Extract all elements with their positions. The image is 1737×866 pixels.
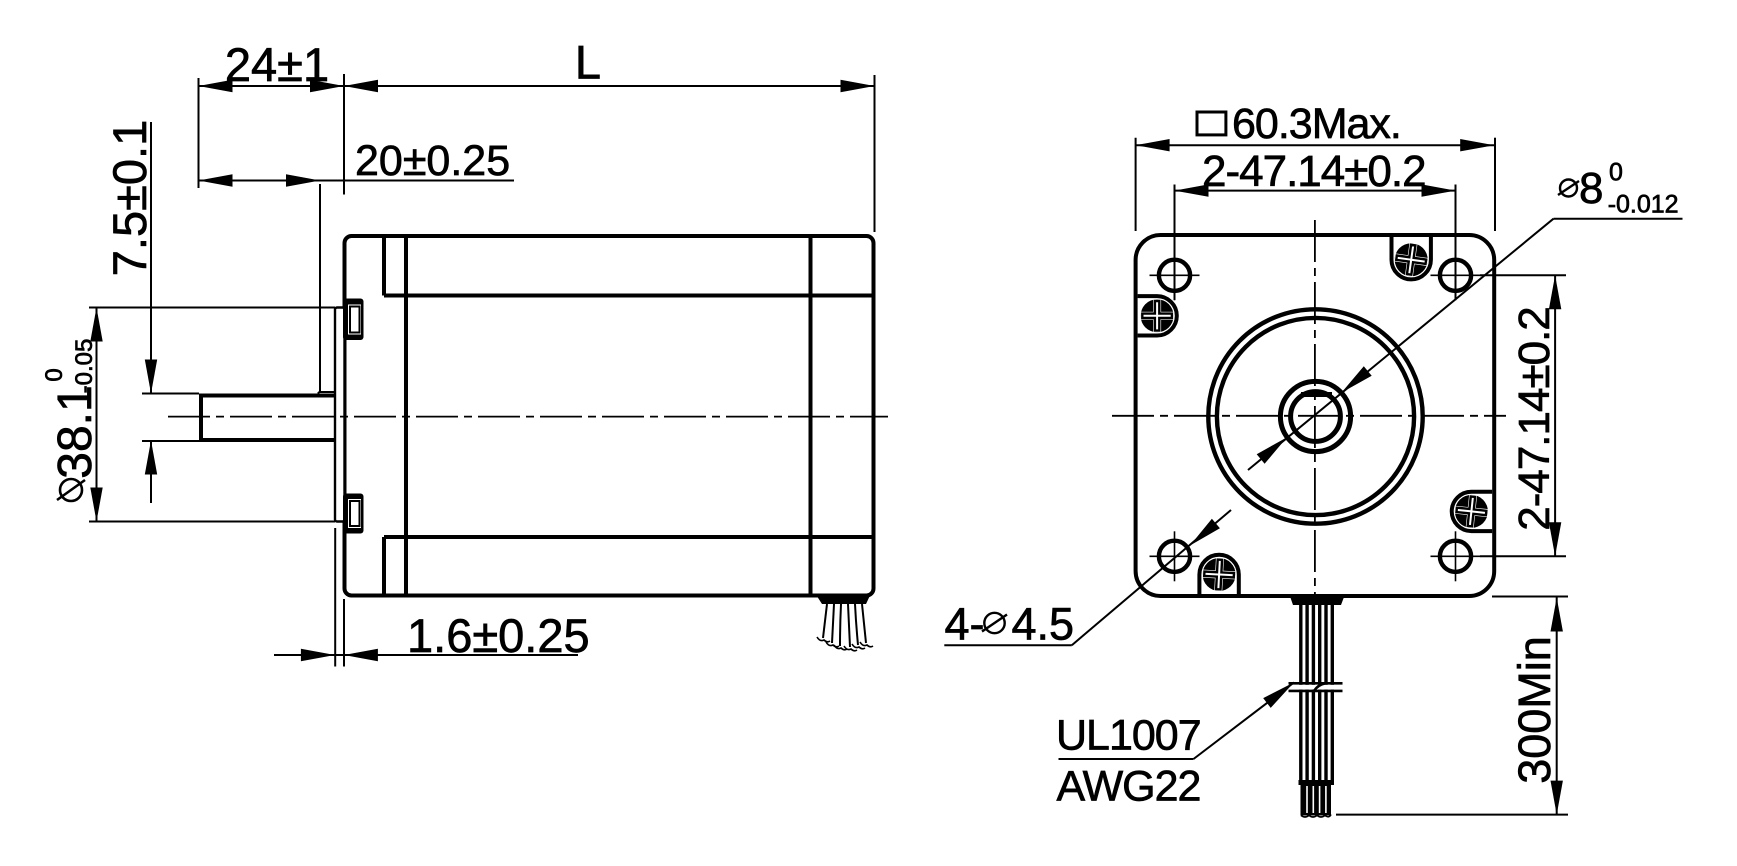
upper mounting tab [343,299,364,341]
svg-text:4.5: 4.5 [1012,599,1075,650]
front endcap inner line top [382,236,386,296]
extension lines 47.14 right [1480,275,1566,556]
extension lines 1.6 [335,528,344,667]
leader line 4-Ø4.5 [1072,510,1231,645]
dimension line 20±0.25 [199,180,515,182]
mounting hole bottom-right [1431,531,1481,581]
dimension line 24±1 [199,85,345,87]
label Ø38.1 with diameter symbol [41,339,102,501]
dimension line 7.5±0.1 [150,122,152,503]
extension lines 47.14 top [1175,185,1456,301]
cover screw top [1392,237,1431,279]
dimension line Ø38.1 [96,308,98,522]
cable break symbol [1288,683,1344,691]
svg-text:8: 8 [1579,164,1603,213]
svg-text:AWG22: AWG22 [1057,763,1201,811]
shaft circle [1291,392,1341,442]
svg-text:-0.012: -0.012 [1608,191,1679,219]
side view centerline [168,416,888,418]
svg-text:0: 0 [1609,158,1623,186]
cover screw bottom [1199,555,1238,594]
horizontal centerline (front view) [1112,415,1506,417]
body upper horizontal line [384,294,874,298]
label 4-Ø4.5 [944,599,1074,650]
rear endcap vertical line [809,236,813,596]
svg-text:20±0.25: 20±0.25 [355,137,510,185]
extension lines 60.3 [1136,138,1495,231]
arrowheads 7.5±0.1 [145,360,157,394]
svg-text:2-47.14±0.2: 2-47.14±0.2 [1510,307,1559,531]
shaft step near boss [319,392,337,396]
shaft boss circle [1280,381,1350,451]
arrowhead UL1007 leader [1263,682,1294,708]
arrowheads 20±0.25 [199,174,233,186]
arrowheads 24±1 [199,80,233,92]
mounting hole top-left [1150,250,1200,300]
lower mounting tab [343,494,364,534]
arrowheads 300Min [1551,598,1563,632]
dimension line 60.3 [1136,144,1495,146]
stripped wire ends [1299,780,1335,817]
label Ø8 0 -0.012 [1554,158,1683,218]
pilot circle inner [1217,318,1414,515]
dimension line L [344,85,875,87]
body lower horizontal line [384,535,874,539]
arrowheads 47.14 top [1175,184,1209,196]
leader line UL1007 [1194,682,1295,759]
svg-text:L: L [575,36,601,89]
shaft flat chord [1301,392,1332,397]
motor body outline (side view) [345,236,874,596]
mounting hole top-right [1431,250,1481,300]
arrowheads 60.3 [1136,139,1170,151]
svg-text:24±1: 24±1 [225,38,329,91]
svg-text:300Min: 300Min [1509,636,1560,784]
extension lines shaft diameter [142,394,199,442]
cover screw left [1138,296,1177,335]
arrowheads Ø8 leader [1342,366,1372,392]
lead wire bundle (front view) [1301,604,1333,781]
pilot boss plate (side view) [335,308,345,522]
dimension line 47.14 right [1554,275,1556,556]
pilot circle outer [1208,309,1422,523]
mounting hole bottom-left [1150,531,1200,581]
vertical centerline (front view) [1314,220,1316,599]
wire grommet (front view) [1290,596,1345,605]
extension lines pilot boss [89,308,335,522]
flange square outline (front view) [1136,235,1495,596]
leader line Ø8 [1248,219,1554,470]
extension lines 300Min [1336,597,1568,815]
dimension line 300Min [1556,598,1558,815]
svg-text:2-47.14±0.2: 2-47.14±0.2 [1202,147,1426,196]
cover screw right [1452,492,1492,531]
svg-text:38.1: 38.1 [49,385,102,478]
six motor lead wires (side view) [817,604,873,651]
svg-text:-0.05: -0.05 [71,339,98,394]
svg-text:0: 0 [41,368,68,381]
front endcap inner line bottom [382,537,386,596]
label square 60.3 Max [1197,100,1401,148]
svg-text:UL1007: UL1007 [1056,712,1201,760]
shaft outline (side view) [199,394,336,443]
wire grommet (side view) [817,596,871,605]
svg-text:7.5±0.1: 7.5±0.1 [103,120,156,276]
arrowheads 47.14 right [1549,275,1561,309]
extension line rear face [874,75,876,232]
dimension line 1.6±0.25 [274,654,578,656]
arrowheads L [344,80,378,92]
dimension line 47.14 top [1175,190,1456,192]
extension line left (shaft end) [198,78,200,188]
svg-text:4-: 4- [945,599,985,650]
svg-text:1.6±0.25: 1.6±0.25 [407,609,590,662]
arrowhead 4-Ø4.5 leader [1190,519,1220,546]
arrowheads Ø38.1 [90,308,102,342]
svg-text:60.3Max.: 60.3Max. [1232,100,1401,148]
extension line shaft step [319,184,321,391]
leader shelf UL1007/AWG22 [1059,758,1194,760]
arrowheads 1.6±0.25 [301,649,335,661]
front endcap vertical line [404,236,408,596]
extension line flange face [343,74,345,195]
